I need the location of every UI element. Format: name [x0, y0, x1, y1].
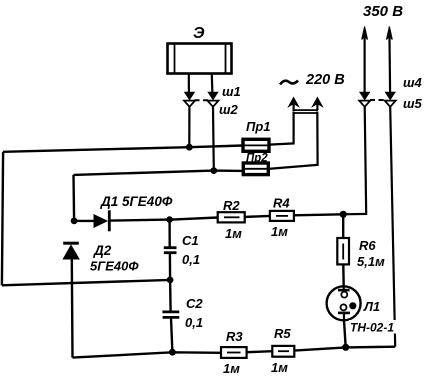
- 220V left arrow: [289, 98, 299, 111]
- diode Д2: [63, 243, 79, 259]
- svg-text:1м: 1м: [271, 224, 288, 239]
- svg-text:ш4: ш4: [403, 75, 423, 90]
- node junction lamp/bottom wire: [342, 344, 349, 351]
- svg-text:5,1м: 5,1м: [357, 254, 385, 269]
- 220V double bar: [293, 110, 319, 113]
- label ТН-02-1: [349, 320, 398, 335]
- svg-text:1м: 1м: [225, 226, 242, 241]
- resistor R6: [337, 238, 349, 264]
- capacitor C1: [164, 220, 177, 280]
- svg-text:Пр1: Пр1: [246, 119, 271, 134]
- connector ш5 (pin-socket): [385, 92, 396, 107]
- svg-text:Д2: Д2: [93, 243, 112, 258]
- svg-text:С2: С2: [186, 296, 203, 311]
- svg-text:Э: Э: [193, 25, 205, 42]
- node junction Д1/Д2/wire B: [71, 218, 78, 225]
- wire fuse Пр2 to 220V right stem: [268, 112, 317, 169]
- svg-text:1м: 1м: [223, 361, 240, 376]
- connector ш2 (pin-socket): [208, 92, 219, 107]
- label ~ 220 В: [280, 72, 345, 88]
- wire ш1 lead down to node: [188, 107, 190, 147]
- wire lead 2 from box Э: [211, 74, 214, 94]
- svg-text:0,1: 0,1: [185, 315, 203, 330]
- capacitor C2: [162, 280, 179, 352]
- node junction R4/ш4/R6: [340, 211, 347, 218]
- wire ш2 lead down to node: [212, 107, 215, 171]
- wire R2 to R4: [245, 216, 270, 217]
- resistor R5: [272, 346, 294, 357]
- dashed connector link ш4-ш5: [370, 99, 385, 101]
- node junction C1 top: [166, 216, 173, 223]
- svg-text:R4: R4: [273, 196, 290, 211]
- svg-text:Л1: Л1: [363, 299, 380, 314]
- node junction wire B / ш2: [210, 167, 217, 174]
- wire Д2 anode down to bottom wire (crosses wire C): [71, 259, 74, 358]
- svg-text:0,1: 0,1: [182, 252, 200, 267]
- neon lamp Л1: [327, 286, 361, 320]
- node junction wire A / ш1: [186, 144, 193, 151]
- svg-text:С1: С1: [182, 233, 199, 248]
- svg-text:R6: R6: [359, 238, 376, 253]
- connector ш1 (pin-socket): [184, 92, 195, 107]
- resistor R2: [218, 212, 245, 222]
- fuse Пр2: [243, 163, 268, 175]
- svg-text:ш5: ш5: [403, 96, 423, 111]
- svg-text:ТН-02-1: ТН-02-1: [350, 321, 394, 335]
- wire Д1 cathode to C1 node: [111, 220, 170, 221]
- wire C1 node to R2: [170, 218, 218, 220]
- connector ш4 (pin-socket): [359, 92, 370, 107]
- svg-text:5ГЕ40Ф: 5ГЕ40Ф: [90, 259, 139, 274]
- svg-text:220 В: 220 В: [305, 72, 345, 88]
- fuse Пр1: [243, 139, 269, 151]
- svg-text:Д1 5ГЕ40Ф: Д1 5ГЕ40Ф: [100, 194, 173, 209]
- svg-text:1м: 1м: [271, 360, 288, 375]
- dashed connector link ш1-ш2: [195, 99, 209, 101]
- svg-text:ш2: ш2: [219, 102, 239, 117]
- svg-text:R5: R5: [274, 326, 291, 341]
- wire corner down to diode node: [72, 175, 75, 221]
- svg-text:R2: R2: [223, 198, 240, 213]
- wire C: bottom of left loop to C1/C2 node: [2, 280, 170, 285]
- diode Д1: [94, 210, 109, 231]
- wire fuse Пр1 to 220V left stem: [269, 112, 293, 145]
- wire node to R6: [342, 214, 344, 238]
- svg-text:Пр2: Пр2: [246, 153, 268, 165]
- wire R6 to lamp: [342, 264, 345, 287]
- wire R3 to R5: [247, 351, 273, 352]
- svg-text:ш1: ш1: [222, 84, 241, 99]
- svg-text:350 В: 350 В: [363, 3, 403, 20]
- 220V right arrow: [312, 98, 322, 111]
- wire A: left edge to fuse Пр1: [3, 146, 243, 152]
- 350V left arrow: [362, 27, 368, 94]
- wire node to Д1 anode: [74, 220, 94, 222]
- wire ш4 column down and left to node: [343, 107, 366, 215]
- electrode box Э: [168, 44, 232, 74]
- wire B: from corner x≈73 to fuse Пр2: [74, 171, 243, 175]
- wire ш5 column down to bottom right corner: [390, 107, 395, 347]
- resistor R4: [270, 211, 294, 221]
- bottom wire left segment: [73, 352, 222, 357]
- wire R4 to node: [294, 214, 343, 215]
- svg-text:R3: R3: [226, 329, 243, 344]
- wire lamp bottom to node: [344, 320, 346, 347]
- wire left vertical (x≈3): [2, 152, 3, 285]
- node junction C2 bottom: [169, 349, 176, 356]
- 350V right arrow: [387, 27, 393, 94]
- resistor R3: [221, 347, 247, 358]
- wire lead 1 from box Э: [188, 74, 190, 94]
- node junction C1 bottom / wire C / C2 top: [167, 277, 174, 284]
- wire R5 to lamp node and right corner: [294, 347, 395, 351]
